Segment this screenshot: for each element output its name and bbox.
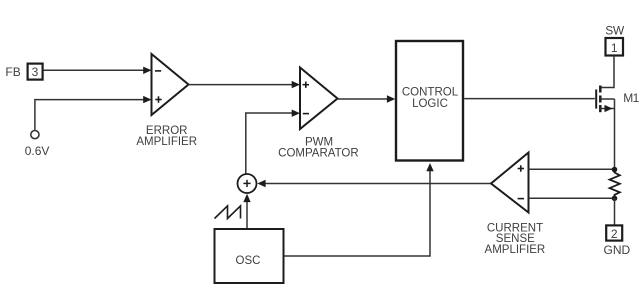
junction dot bottom of sense resistor — [612, 196, 618, 202]
block control logic — [396, 41, 463, 161]
wire 0.6V to error amp non-inverting input — [35, 96, 152, 130]
sawtooth waveform symbol — [215, 206, 241, 219]
svg-text:AMPLIFIER: AMPLIFIER — [136, 136, 197, 148]
transistor M1 (NMOS) — [596, 86, 614, 113]
svg-text:1: 1 — [611, 41, 618, 55]
svg-text:AMPLIFIER: AMPLIFIER — [485, 244, 546, 256]
svg-text:SW: SW — [605, 23, 625, 37]
wire error amp output to PWM comparator + input — [189, 81, 301, 88]
label ERROR AMPLIFIER — [136, 125, 197, 148]
wire FB to error amp inverting input — [43, 67, 151, 74]
wire sense resistor to GND pin — [614, 198, 616, 225]
op-amp U1 error amplifier — [152, 54, 189, 115]
wire SW pin to M1 drain — [600, 56, 614, 88]
svg-text:FB: FB — [5, 65, 20, 79]
block OSC — [215, 229, 284, 283]
op-amp U3 current sense amplifier — [491, 153, 529, 213]
svg-text:0.6V: 0.6V — [25, 144, 50, 158]
svg-text:LOGIC: LOGIC — [412, 98, 448, 110]
wire OSC to summing node — [243, 194, 250, 229]
svg-text:M1: M1 — [623, 91, 639, 105]
wire PWM comparator output to control logic — [338, 95, 396, 102]
pin 3 (FB) — [28, 64, 43, 80]
junction dot top of sense resistor — [612, 167, 618, 173]
summing node — [238, 174, 257, 193]
wire OSC to control logic — [284, 163, 434, 256]
label CURRENT SENSE AMPLIFIER — [485, 222, 546, 256]
svg-text:ERROR: ERROR — [146, 125, 188, 137]
svg-text:3: 3 — [32, 65, 39, 79]
label PWM COMPARATOR — [278, 137, 359, 160]
wire control logic output to M1 gate — [464, 98, 595, 100]
wire current sense amp + input to sense resistor top — [529, 168, 615, 170]
svg-text:OSC: OSC — [236, 255, 261, 267]
svg-text:2: 2 — [611, 227, 618, 241]
wire current sense amp - input to sense resistor bottom — [529, 197, 615, 199]
terminal 0.6V — [31, 131, 39, 139]
wire current sense amp output to summing node — [257, 180, 491, 187]
svg-text:CONTROL: CONTROL — [402, 86, 459, 98]
pin 2 (GND) — [606, 225, 622, 240]
resistor R1 sense resistor — [610, 170, 620, 198]
wire summing node to PWM comparator - input — [246, 110, 300, 174]
svg-text:COMPARATOR: COMPARATOR — [278, 148, 359, 160]
svg-text:SENSE: SENSE — [496, 233, 535, 245]
wire M1 source down to sense resistor — [614, 99, 616, 170]
svg-text:GND: GND — [604, 243, 631, 257]
pin 1 (SW) — [606, 38, 624, 56]
comparator U2 PWM comparator — [300, 68, 338, 130]
